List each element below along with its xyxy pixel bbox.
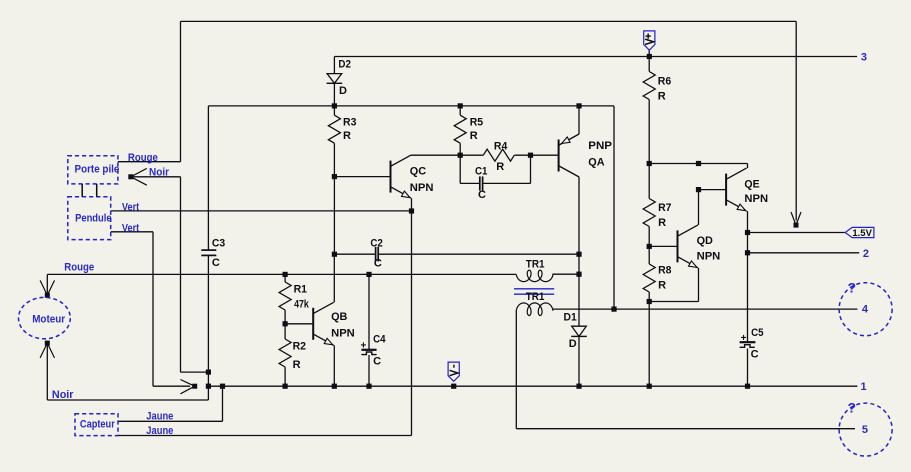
svg-text:?: ? — [848, 279, 857, 295]
svg-text:?: ? — [848, 399, 857, 415]
svg-text:R2: R2 — [293, 340, 306, 352]
svg-text:+: + — [741, 333, 747, 344]
svg-text:Porte pile: Porte pile — [75, 164, 120, 176]
svg-text:R4: R4 — [494, 141, 508, 153]
svg-text:NPN: NPN — [697, 251, 721, 263]
svg-text:C: C — [374, 258, 382, 270]
svg-text:C4: C4 — [373, 334, 386, 346]
svg-text:1: 1 — [861, 381, 867, 393]
svg-text:D2: D2 — [338, 59, 351, 71]
svg-text:+: + — [361, 340, 367, 351]
svg-text:NPN: NPN — [410, 182, 434, 194]
svg-text:R: R — [343, 130, 351, 142]
svg-text:47k: 47k — [294, 299, 309, 311]
svg-text:QB: QB — [331, 311, 347, 323]
svg-text:R: R — [496, 161, 504, 173]
svg-text:Rouge: Rouge — [128, 152, 158, 164]
svg-text:Jaune: Jaune — [146, 411, 173, 423]
svg-text:QE: QE — [744, 179, 759, 191]
svg-text:R3: R3 — [343, 117, 356, 129]
svg-text:C3: C3 — [212, 238, 225, 250]
svg-text:R: R — [658, 91, 666, 103]
svg-text:5: 5 — [862, 424, 868, 436]
svg-text:TR1: TR1 — [526, 259, 545, 271]
svg-text:C: C — [478, 189, 486, 201]
svg-text:QC: QC — [410, 165, 426, 177]
svg-text:Rouge: Rouge — [64, 262, 94, 274]
svg-text:R: R — [470, 130, 478, 142]
svg-text:C2: C2 — [370, 238, 382, 250]
svg-text:PNP: PNP — [588, 140, 612, 152]
svg-text:D: D — [569, 338, 577, 350]
svg-text:Capteur: Capteur — [80, 419, 116, 431]
svg-text:C: C — [751, 349, 759, 361]
svg-text:R6: R6 — [658, 76, 671, 88]
svg-text:Pendule: Pendule — [75, 213, 112, 225]
svg-text:R1: R1 — [294, 283, 307, 295]
svg-text:R8: R8 — [658, 264, 671, 276]
svg-text:C5: C5 — [751, 327, 763, 339]
svg-text:D: D — [339, 85, 347, 97]
svg-text:Noir: Noir — [52, 389, 74, 401]
svg-text:C: C — [212, 257, 220, 269]
svg-text:Vert: Vert — [122, 222, 140, 234]
svg-text:4: 4 — [862, 304, 869, 316]
svg-text:R: R — [293, 359, 301, 371]
svg-text:Vert: Vert — [122, 201, 140, 213]
svg-text:2: 2 — [863, 248, 869, 260]
svg-text:QA: QA — [588, 157, 604, 169]
svg-text:Jaune: Jaune — [146, 425, 173, 437]
svg-text:R: R — [658, 217, 666, 229]
svg-text:C: C — [373, 356, 381, 368]
svg-text:3: 3 — [861, 52, 867, 64]
svg-text:1.5V: 1.5V — [852, 228, 872, 238]
svg-text:Moteur: Moteur — [32, 314, 66, 326]
svg-text:C1: C1 — [475, 165, 487, 177]
svg-text:R: R — [658, 279, 666, 291]
svg-text:TR1: TR1 — [526, 291, 545, 303]
svg-text:QD: QD — [697, 235, 713, 247]
svg-text:R5: R5 — [470, 117, 483, 129]
svg-text:D1: D1 — [564, 311, 577, 323]
svg-text:R7: R7 — [658, 202, 671, 214]
svg-text:NPN: NPN — [331, 328, 355, 340]
svg-text:Noir: Noir — [149, 166, 170, 178]
svg-text:NPN: NPN — [744, 193, 768, 205]
